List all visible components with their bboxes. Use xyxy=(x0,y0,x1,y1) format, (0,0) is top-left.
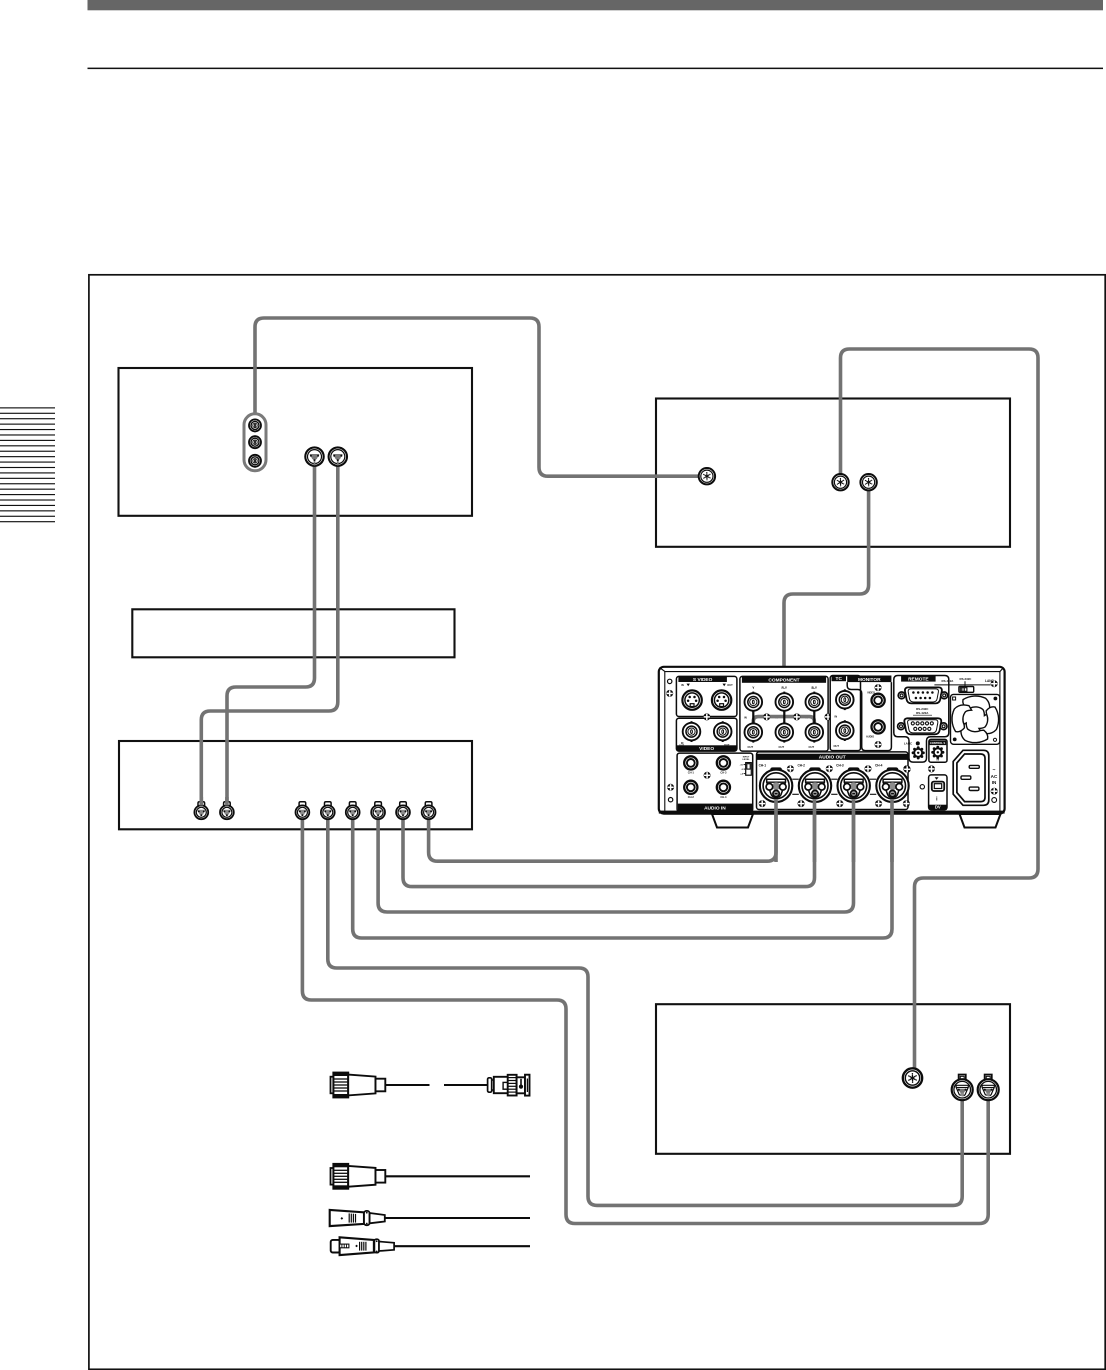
svg-text:CH-2: CH-2 xyxy=(797,763,805,767)
svg-text:RS-422A: RS-422A xyxy=(916,711,929,715)
svg-text:CH-3: CH-3 xyxy=(720,771,727,775)
svg-text:OUT: OUT xyxy=(779,745,785,749)
svg-text:MONITOR: MONITOR xyxy=(858,677,881,683)
svg-text:OUT: OUT xyxy=(727,683,733,687)
svg-text:CH-1: CH-1 xyxy=(759,763,767,767)
svg-text:AUDIO OUT: AUDIO OUT xyxy=(819,755,846,761)
svg-text:RS-232C: RS-232C xyxy=(960,677,973,681)
svg-text:CH-3: CH-3 xyxy=(836,763,844,767)
svg-text:AUDIO: AUDIO xyxy=(866,736,874,739)
svg-text:REMOTE: REMOTE xyxy=(908,676,929,682)
svg-text:AUDIO IN: AUDIO IN xyxy=(704,805,726,811)
svg-text:RS-422A: RS-422A xyxy=(942,679,955,683)
svg-text:CONTROL S: CONTROL S xyxy=(930,741,945,745)
svg-text:OUT: OUT xyxy=(834,744,840,748)
svg-text:CH-1: CH-1 xyxy=(688,771,695,775)
svg-text:IN: IN xyxy=(992,780,997,785)
svg-text:COMPONENT: COMPONENT xyxy=(768,678,799,684)
svg-text:IN: IN xyxy=(681,683,684,687)
svg-text:S VIDEO: S VIDEO xyxy=(693,677,713,683)
svg-text:B-Y: B-Y xyxy=(812,686,818,690)
svg-text:CH-4: CH-4 xyxy=(875,763,883,767)
svg-text:R-Y: R-Y xyxy=(782,686,788,690)
svg-text:DV: DV xyxy=(935,805,941,810)
svg-text:IN: IN xyxy=(835,714,838,718)
svg-text:VIDEO: VIDEO xyxy=(699,746,714,752)
svg-text:VIDEO: VIDEO xyxy=(867,691,875,694)
svg-text:IN: IN xyxy=(937,758,940,762)
svg-text:~: ~ xyxy=(993,768,996,774)
svg-text:CH-2: CH-2 xyxy=(688,795,695,799)
svg-text:OUT: OUT xyxy=(809,745,815,749)
svg-text:TC: TC xyxy=(836,676,843,682)
svg-text:OUT: OUT xyxy=(748,745,754,749)
svg-text:LEVEL: LEVEL xyxy=(742,759,750,761)
svg-text:AC: AC xyxy=(991,774,998,779)
svg-text:LANC: LANC xyxy=(904,742,913,746)
svg-text:CH-4: CH-4 xyxy=(720,795,727,799)
svg-text:IN: IN xyxy=(744,715,747,719)
